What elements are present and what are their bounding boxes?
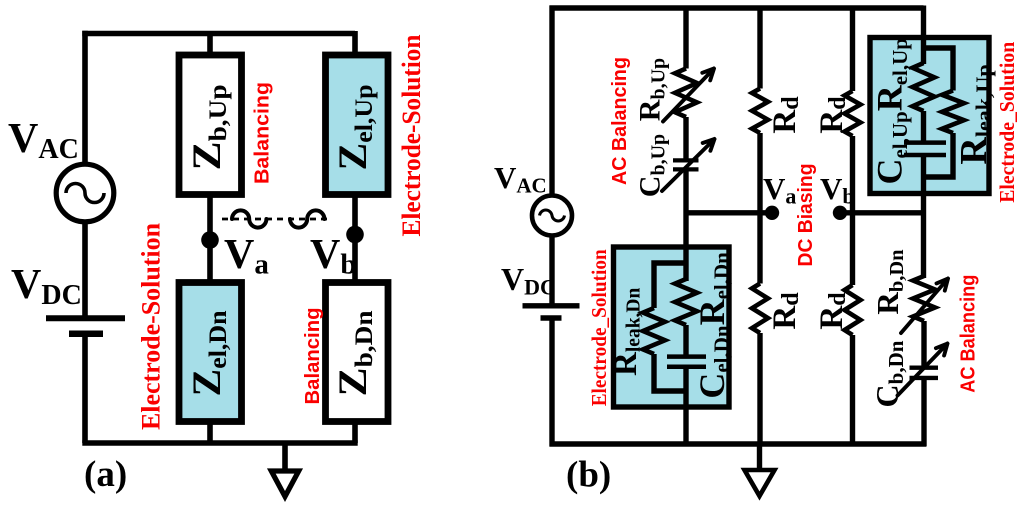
- variable resistor R_b,Dn zigzag: [913, 276, 935, 321]
- ground stub (b): [757, 444, 762, 470]
- resistor R_d upper-left zigzag: [752, 89, 768, 134]
- svg-text:Electrode_Solution: Electrode_Solution: [587, 249, 611, 406]
- battery V_DC (b): short plate: [541, 315, 562, 321]
- ground symbol (a): open triangle: [271, 471, 298, 497]
- wire: left branch upper segment (b): [549, 6, 554, 195]
- battery V_DC (b): long plate: [523, 303, 580, 308]
- svg-text:AC Balancing: AC Balancing: [609, 57, 631, 185]
- node V_a junction dot (a): [201, 231, 219, 249]
- variable resistor R_b,Up zigzag: [675, 69, 697, 118]
- wire: branch2 middle segment: [757, 133, 762, 284]
- wire: R_leak,Up loop top: [924, 48, 954, 91]
- battery V_DC (a): long plate: [46, 315, 125, 321]
- dashed balance line between nodes (a): [222, 218, 332, 221]
- svg-text:(b): (b): [566, 455, 611, 496]
- wire: tap from node V_b to branch4: [840, 210, 924, 215]
- wire: R_leak,Dn loop top: [654, 263, 686, 308]
- impedance Z_b,Up box (a): [179, 55, 242, 195]
- wire: branch4 middle segment (through V_b junction): [921, 157, 926, 278]
- source V_AC symbol (b): circle: [532, 196, 572, 236]
- resistor R_leak,Up zigzag: [942, 91, 964, 134]
- svg-text:Balancing: Balancing: [252, 82, 274, 184]
- resistor R_d lower-left zigzag: [752, 284, 768, 334]
- wire: between R_b,Up and C_b,Up: [683, 117, 688, 159]
- variable capacitor C_b,Dn arrow: [898, 344, 948, 396]
- svg-text:AC Balancing: AC Balancing: [958, 275, 980, 393]
- source V_AC symbol (a): circle: [56, 164, 114, 222]
- wire: branch2 bottom segment: [757, 333, 762, 447]
- wire: upper stub into Z_el,Up (a): [352, 31, 358, 58]
- wire: branch3 bottom segment: [850, 335, 855, 447]
- ground symbol (b): open triangle: [745, 470, 775, 496]
- svg-text:Electrode-Solution: Electrode-Solution: [137, 222, 166, 430]
- wire: Z_b,Dn to bottom bus (a): [352, 419, 358, 443]
- wire: bottom horizontal bus (b): [550, 441, 927, 446]
- AC squiggle right on dashed line (a): [290, 210, 324, 227]
- wire: node b to Z_b,Dn (a): [352, 235, 358, 286]
- svg-text:Electrode_Solution: Electrode_Solution: [995, 42, 1019, 203]
- wire: R_leak,Dn loop bottom: [654, 354, 686, 391]
- wire: Z_el,Dn to bottom bus (a): [207, 419, 213, 443]
- wire: branch2 top segment: [757, 6, 762, 89]
- capacitor C_el,Dn plate 1: [667, 354, 706, 359]
- variable resistor R_b,Dn arrow: [901, 279, 948, 334]
- electrode-solution box Dn (b): [614, 247, 730, 407]
- wire: bottom bus (a): [82, 440, 357, 446]
- wire: top horizontal bus (a): [82, 31, 355, 37]
- wire: R_leak,Up loop bottom: [924, 133, 954, 177]
- wire: node a to Z_el,Dn (a): [207, 240, 213, 285]
- wire: left branch lower segment (a): [82, 337, 88, 444]
- wire: tap to node V_a: [686, 210, 772, 215]
- wire: branch1 top segment (b): [683, 6, 688, 69]
- wire: Z_b,Up to node a (a): [207, 194, 213, 240]
- electrode-solution box Up (b): [870, 38, 989, 194]
- variable capacitor C_b,Dn plate 2: [910, 376, 939, 380]
- wire: R_el,Dn to C_el,Dn: [683, 325, 688, 355]
- capacitor C_el,Dn plate 2: [667, 365, 706, 370]
- resistor R_leak,Dn zigzag: [643, 308, 665, 354]
- variable capacitor C_b,Dn plate 1: [910, 366, 939, 370]
- wire: branch4 top segment: [921, 6, 926, 65]
- capacitor C_el,Up plate 1: [904, 140, 946, 145]
- wire: Z_el,Up to node b (a): [352, 194, 358, 235]
- resistor R_d lower-right zigzag: [845, 285, 861, 335]
- node V_a dot (b): [765, 206, 779, 220]
- wire: left branch mid segment (a): [82, 222, 88, 316]
- svg-text:(a): (a): [84, 454, 127, 495]
- variable capacitor C_b,Up arrow: [662, 139, 715, 191]
- wire: left branch lower segment (b): [549, 321, 554, 447]
- battery V_DC (a): short plate: [69, 331, 103, 338]
- capacitor C_el,Up plate 2: [904, 153, 946, 158]
- impedance Z_b,Dn box (a): [326, 283, 389, 422]
- svg-text:DC Biasing: DC Biasing: [795, 164, 817, 267]
- wire: R_el,Up to C_el,Up: [921, 111, 926, 141]
- wire: top horizontal bus (b): [550, 5, 924, 10]
- node V_b dot (b): [833, 206, 847, 220]
- resistor R_el,Up zigzag: [913, 63, 935, 111]
- wire: branch3 top segment: [850, 6, 855, 92]
- wire: branch1 from C_b,Up down into electrode box Dn: [683, 172, 688, 282]
- wire: left branch mid segment (b): [549, 237, 554, 304]
- wire: left branch upper segment (a): [82, 31, 88, 163]
- variable capacitor C_b,Up plate 1: [673, 158, 699, 162]
- source V_AC sine glyph (b): [540, 210, 565, 221]
- resistor R_el,Dn zigzag: [675, 279, 697, 325]
- impedance Z_el,Dn box (a): [179, 283, 242, 422]
- impedance Z_el,Up box (a): [326, 55, 389, 195]
- AC squiggle left on dashed line (a): [232, 210, 266, 227]
- variable resistor R_b,Up arrow: [663, 69, 714, 122]
- wire: branch3 middle segment: [850, 136, 855, 285]
- source V_AC sine glyph (a): [66, 184, 104, 203]
- svg-text:Balancing: Balancing: [302, 308, 324, 405]
- wire: branch4 bottom segment: [921, 380, 926, 447]
- wire: between R_b,Dn and C_b,Dn: [921, 321, 926, 367]
- wire: branch1 bottom segment to bus: [683, 369, 688, 447]
- ground stub (a): [282, 443, 288, 471]
- resistor R_d upper-right zigzag: [845, 91, 861, 136]
- node V_b junction dot (a): [346, 226, 364, 244]
- wire: upper stub into Z_b,Up (a): [207, 31, 213, 58]
- variable capacitor C_b,Up plate 2: [673, 167, 699, 171]
- svg-text:Electrode-Solution: Electrode-Solution: [397, 34, 426, 237]
